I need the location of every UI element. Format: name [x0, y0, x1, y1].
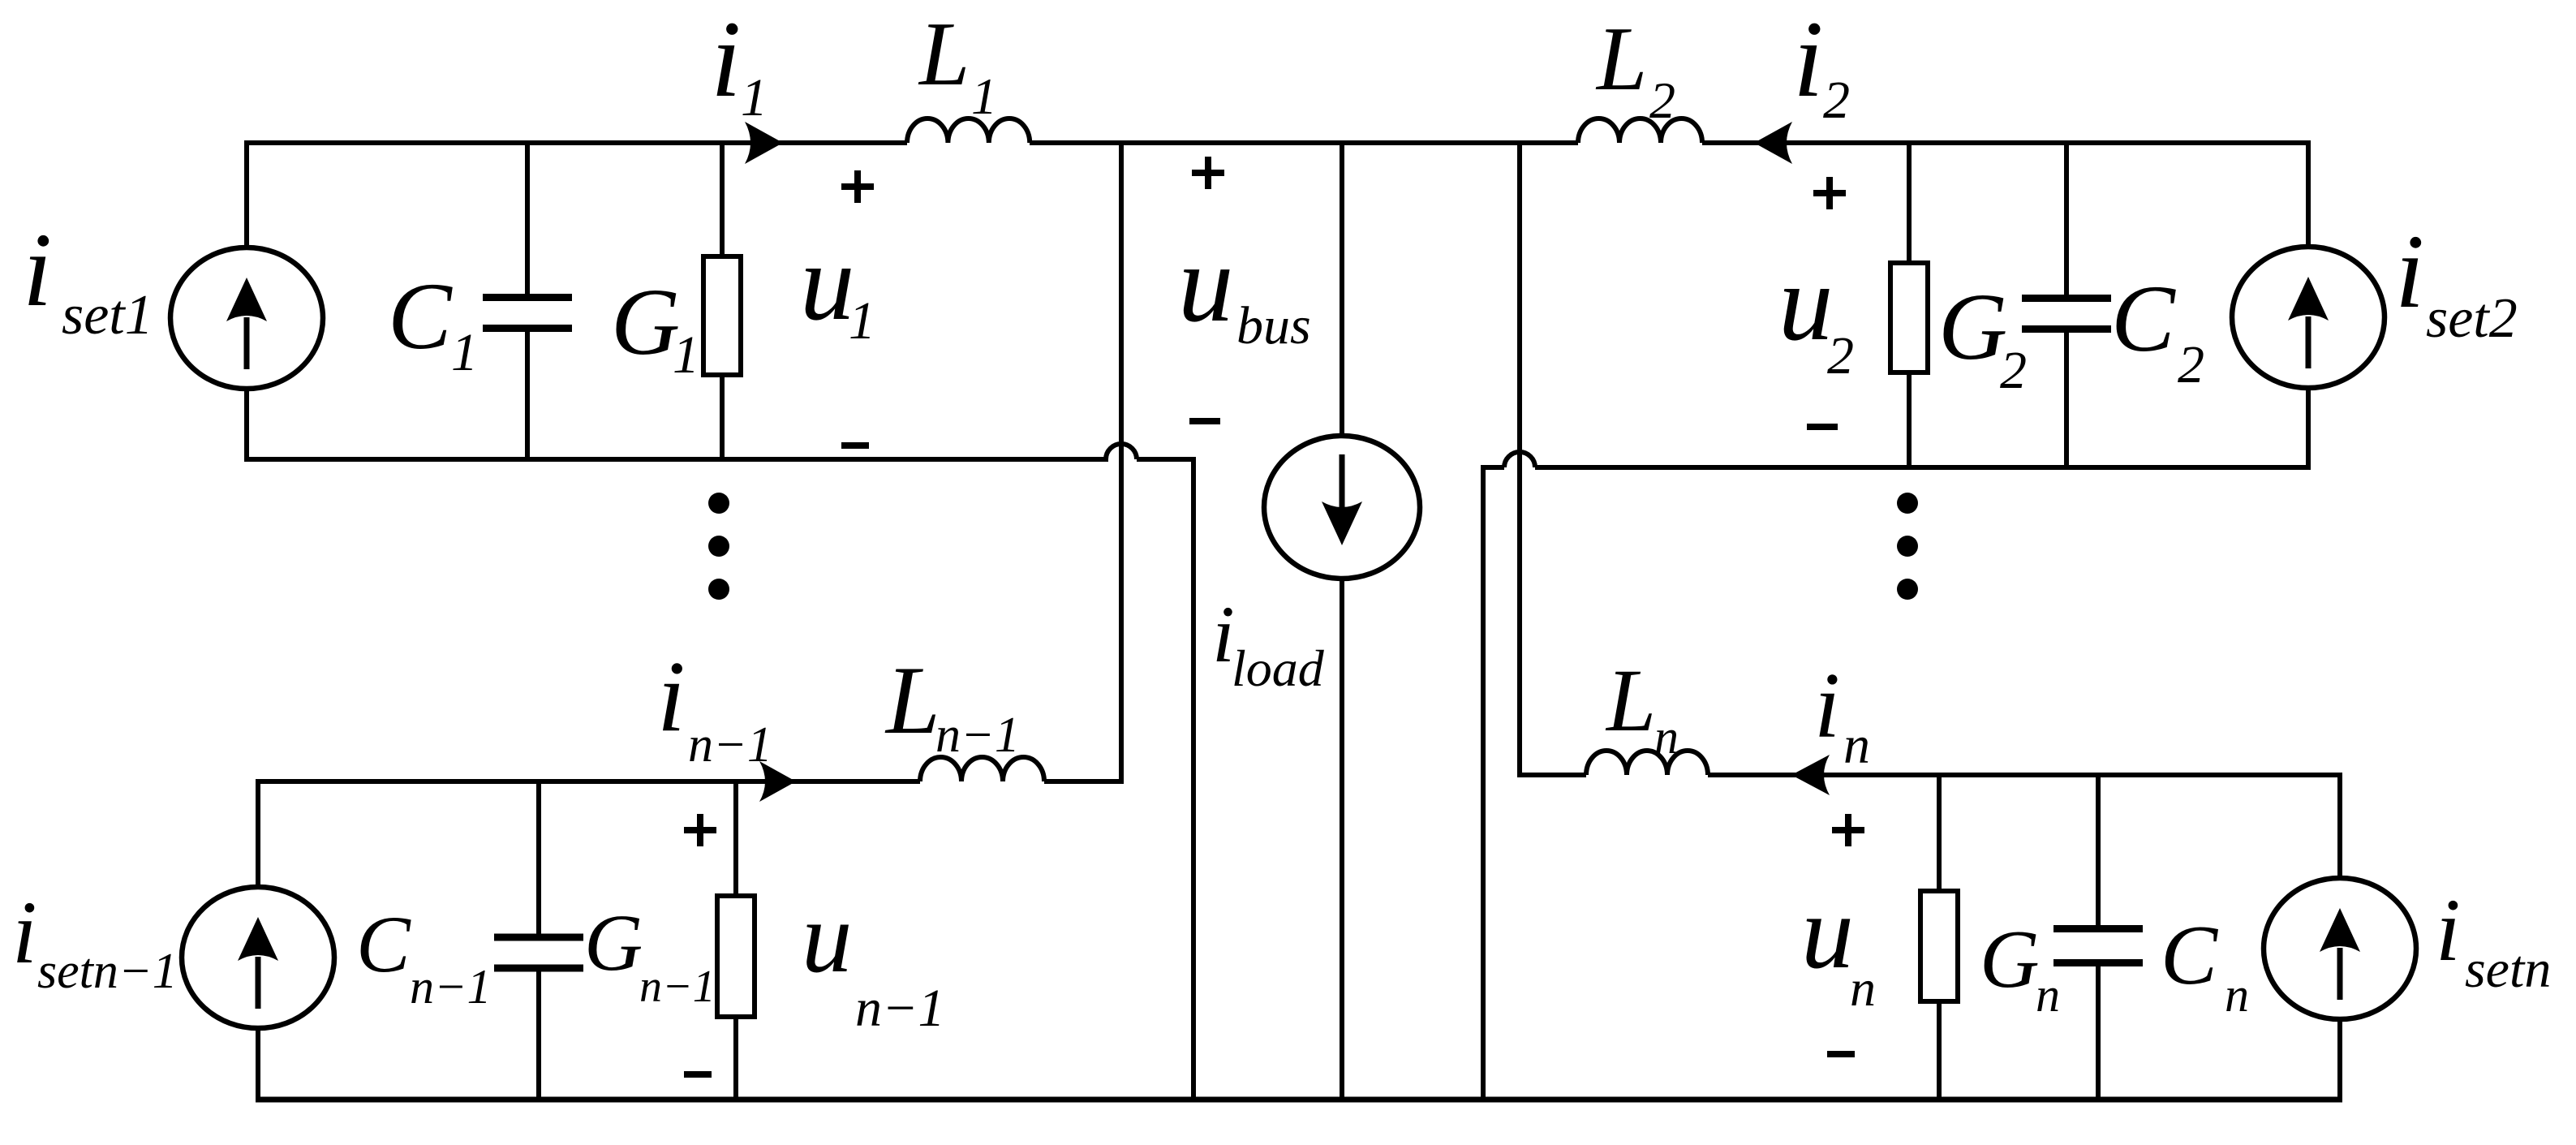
capacitor C_n-1 — [536, 781, 541, 1100]
svg-text:set1: set1 — [62, 284, 153, 347]
label G_n — [1980, 914, 2060, 1022]
svg-text:L: L — [884, 646, 940, 754]
wire top of converter n — [1708, 773, 2342, 777]
svg-text:n−1: n−1 — [410, 960, 492, 1014]
svg-text:setn−1: setn−1 — [37, 944, 178, 999]
label u_bus — [1178, 222, 1311, 355]
inductor L_n-1 — [920, 757, 1044, 781]
label i_setn — [2436, 880, 2551, 999]
svg-text:i: i — [1814, 654, 1840, 757]
svg-text:i: i — [23, 212, 52, 329]
svg-text:L: L — [918, 4, 970, 105]
plus sign u_n-1 — [684, 814, 716, 846]
label C2 — [2111, 265, 2204, 394]
svg-text:setn: setn — [2465, 940, 2551, 999]
label i_setn-1 — [12, 883, 178, 999]
label L_n — [1605, 651, 1679, 764]
label L_n-1 — [884, 646, 1020, 763]
svg-text:1: 1 — [451, 323, 478, 382]
svg-text:u: u — [1778, 243, 1834, 364]
wire bottom ground bus — [256, 1097, 2342, 1103]
plus sign u_bus — [1192, 157, 1224, 189]
svg-text:u: u — [1801, 874, 1854, 991]
svg-text:L: L — [1605, 651, 1656, 750]
svg-text:G: G — [611, 269, 680, 375]
arrow i_n-1 — [759, 761, 796, 802]
svg-text:i: i — [12, 883, 37, 982]
label i1 — [711, 0, 768, 127]
label u_n — [1801, 874, 1876, 1017]
label L2 — [1595, 9, 1675, 129]
wire bottom of converter 2 with hop — [1504, 452, 2311, 467]
wire right edge of converter n — [2337, 773, 2342, 1102]
svg-text:n−1: n−1 — [639, 962, 716, 1012]
current source i_setn — [2264, 878, 2416, 1019]
inductor L1 — [907, 118, 1030, 143]
arrow i_n — [1791, 755, 1830, 795]
svg-text:n−1: n−1 — [855, 979, 945, 1038]
label G1 — [611, 269, 699, 385]
arrow i2 — [1754, 122, 1792, 164]
svg-text:2: 2 — [1649, 71, 1675, 129]
wire left edge of converter 1 — [244, 140, 249, 462]
svg-text:n: n — [2036, 968, 2060, 1022]
label G2 — [1938, 273, 2027, 400]
resistor G2 — [1907, 143, 1912, 467]
svg-text:load: load — [1232, 639, 1325, 697]
ellipsis dots left — [708, 493, 729, 600]
label u1 — [800, 222, 875, 351]
label C_n — [2161, 907, 2249, 1022]
label i_n — [1814, 654, 1870, 775]
inductor L_n — [1586, 751, 1708, 775]
label i_load — [1212, 589, 1325, 697]
svg-text:i: i — [2436, 880, 2461, 979]
wire center bus line — [1340, 143, 1344, 1100]
resistor G_n — [1937, 775, 1942, 1100]
label L1 — [918, 4, 997, 125]
wire u_bus left vertical and corner to L_n-1 — [1044, 143, 1121, 781]
minus sign u_n-1 — [684, 1071, 712, 1078]
svg-text:1: 1 — [849, 291, 875, 351]
svg-text:i: i — [1793, 0, 1824, 120]
capacitor C2 — [2064, 143, 2069, 467]
svg-text:C: C — [356, 899, 411, 989]
plus sign u2 — [1813, 177, 1846, 209]
label C_n-1 — [356, 899, 492, 1014]
wire right edge of converter 2 — [2306, 140, 2311, 470]
inductor L2 — [1578, 118, 1702, 143]
minus sign u1 — [841, 442, 869, 449]
svg-text:u: u — [802, 882, 853, 994]
wire from converter 1 bottom down to ground bus — [1137, 459, 1193, 1100]
wire top bus — [244, 140, 2311, 145]
svg-text:i: i — [2395, 213, 2424, 330]
arrow i1 — [745, 122, 783, 164]
svg-text:u: u — [800, 222, 855, 343]
svg-text:bus: bus — [1236, 296, 1311, 355]
svg-text:n−1: n−1 — [688, 717, 772, 773]
svg-text:i: i — [657, 641, 686, 753]
current source i_setn-1 — [182, 887, 334, 1028]
svg-text:L: L — [1595, 9, 1647, 110]
minus sign u_bus — [1189, 418, 1220, 424]
label C1 — [388, 263, 478, 382]
svg-text:2: 2 — [1827, 326, 1854, 385]
svg-text:C: C — [2111, 265, 2176, 372]
current source i_set2 — [2232, 247, 2385, 388]
label i2 — [1793, 0, 1850, 130]
svg-text:1: 1 — [741, 68, 768, 127]
label u_n-1 — [802, 882, 945, 1038]
svg-text:u: u — [1178, 222, 1234, 345]
svg-text:2: 2 — [2000, 341, 2027, 400]
wire top of converter n-1 — [256, 779, 920, 784]
svg-text:2: 2 — [2178, 335, 2204, 394]
svg-text:n−1: n−1 — [935, 708, 1020, 763]
capacitor C1 — [525, 143, 530, 459]
svg-text:n: n — [1843, 716, 1870, 775]
svg-text:n: n — [1654, 710, 1679, 764]
svg-text:C: C — [2161, 907, 2219, 1002]
wire u_bus right vertical and corner to L_n — [1520, 143, 1586, 775]
current source i_load — [1264, 436, 1420, 579]
plus sign u1 — [841, 170, 874, 203]
minus sign u2 — [1807, 424, 1838, 430]
svg-text:G: G — [1938, 273, 2007, 380]
label u2 — [1778, 243, 1854, 385]
current source i_set1 — [170, 248, 323, 389]
wire left edge of converter n-1 — [256, 779, 260, 1102]
svg-text:n: n — [2225, 968, 2249, 1022]
resistor G_n-1 — [733, 781, 738, 1100]
svg-text:set2: set2 — [2426, 287, 2518, 350]
label i_set2 — [2395, 213, 2518, 350]
minus sign u_n — [1827, 1051, 1855, 1057]
wire from converter 2 bottom down to ground bus — [1483, 467, 1504, 1100]
resistor G1 — [720, 143, 725, 459]
wire bottom of converter 1 with hop — [244, 444, 1193, 459]
svg-text:1: 1 — [971, 67, 997, 125]
plus sign u_n — [1832, 814, 1864, 846]
ellipsis dots right — [1897, 493, 1918, 600]
svg-text:2: 2 — [1823, 71, 1850, 130]
svg-text:G: G — [584, 897, 643, 988]
svg-text:n: n — [1850, 959, 1876, 1017]
svg-text:i: i — [711, 0, 742, 120]
label i_set1 — [23, 212, 153, 347]
label G_n-1 — [584, 897, 716, 1012]
svg-text:G: G — [1980, 914, 2040, 1005]
capacitor C_n — [2096, 775, 2101, 1100]
label i_n-1 — [657, 641, 772, 773]
svg-text:1: 1 — [673, 325, 699, 385]
svg-text:C: C — [388, 263, 453, 369]
